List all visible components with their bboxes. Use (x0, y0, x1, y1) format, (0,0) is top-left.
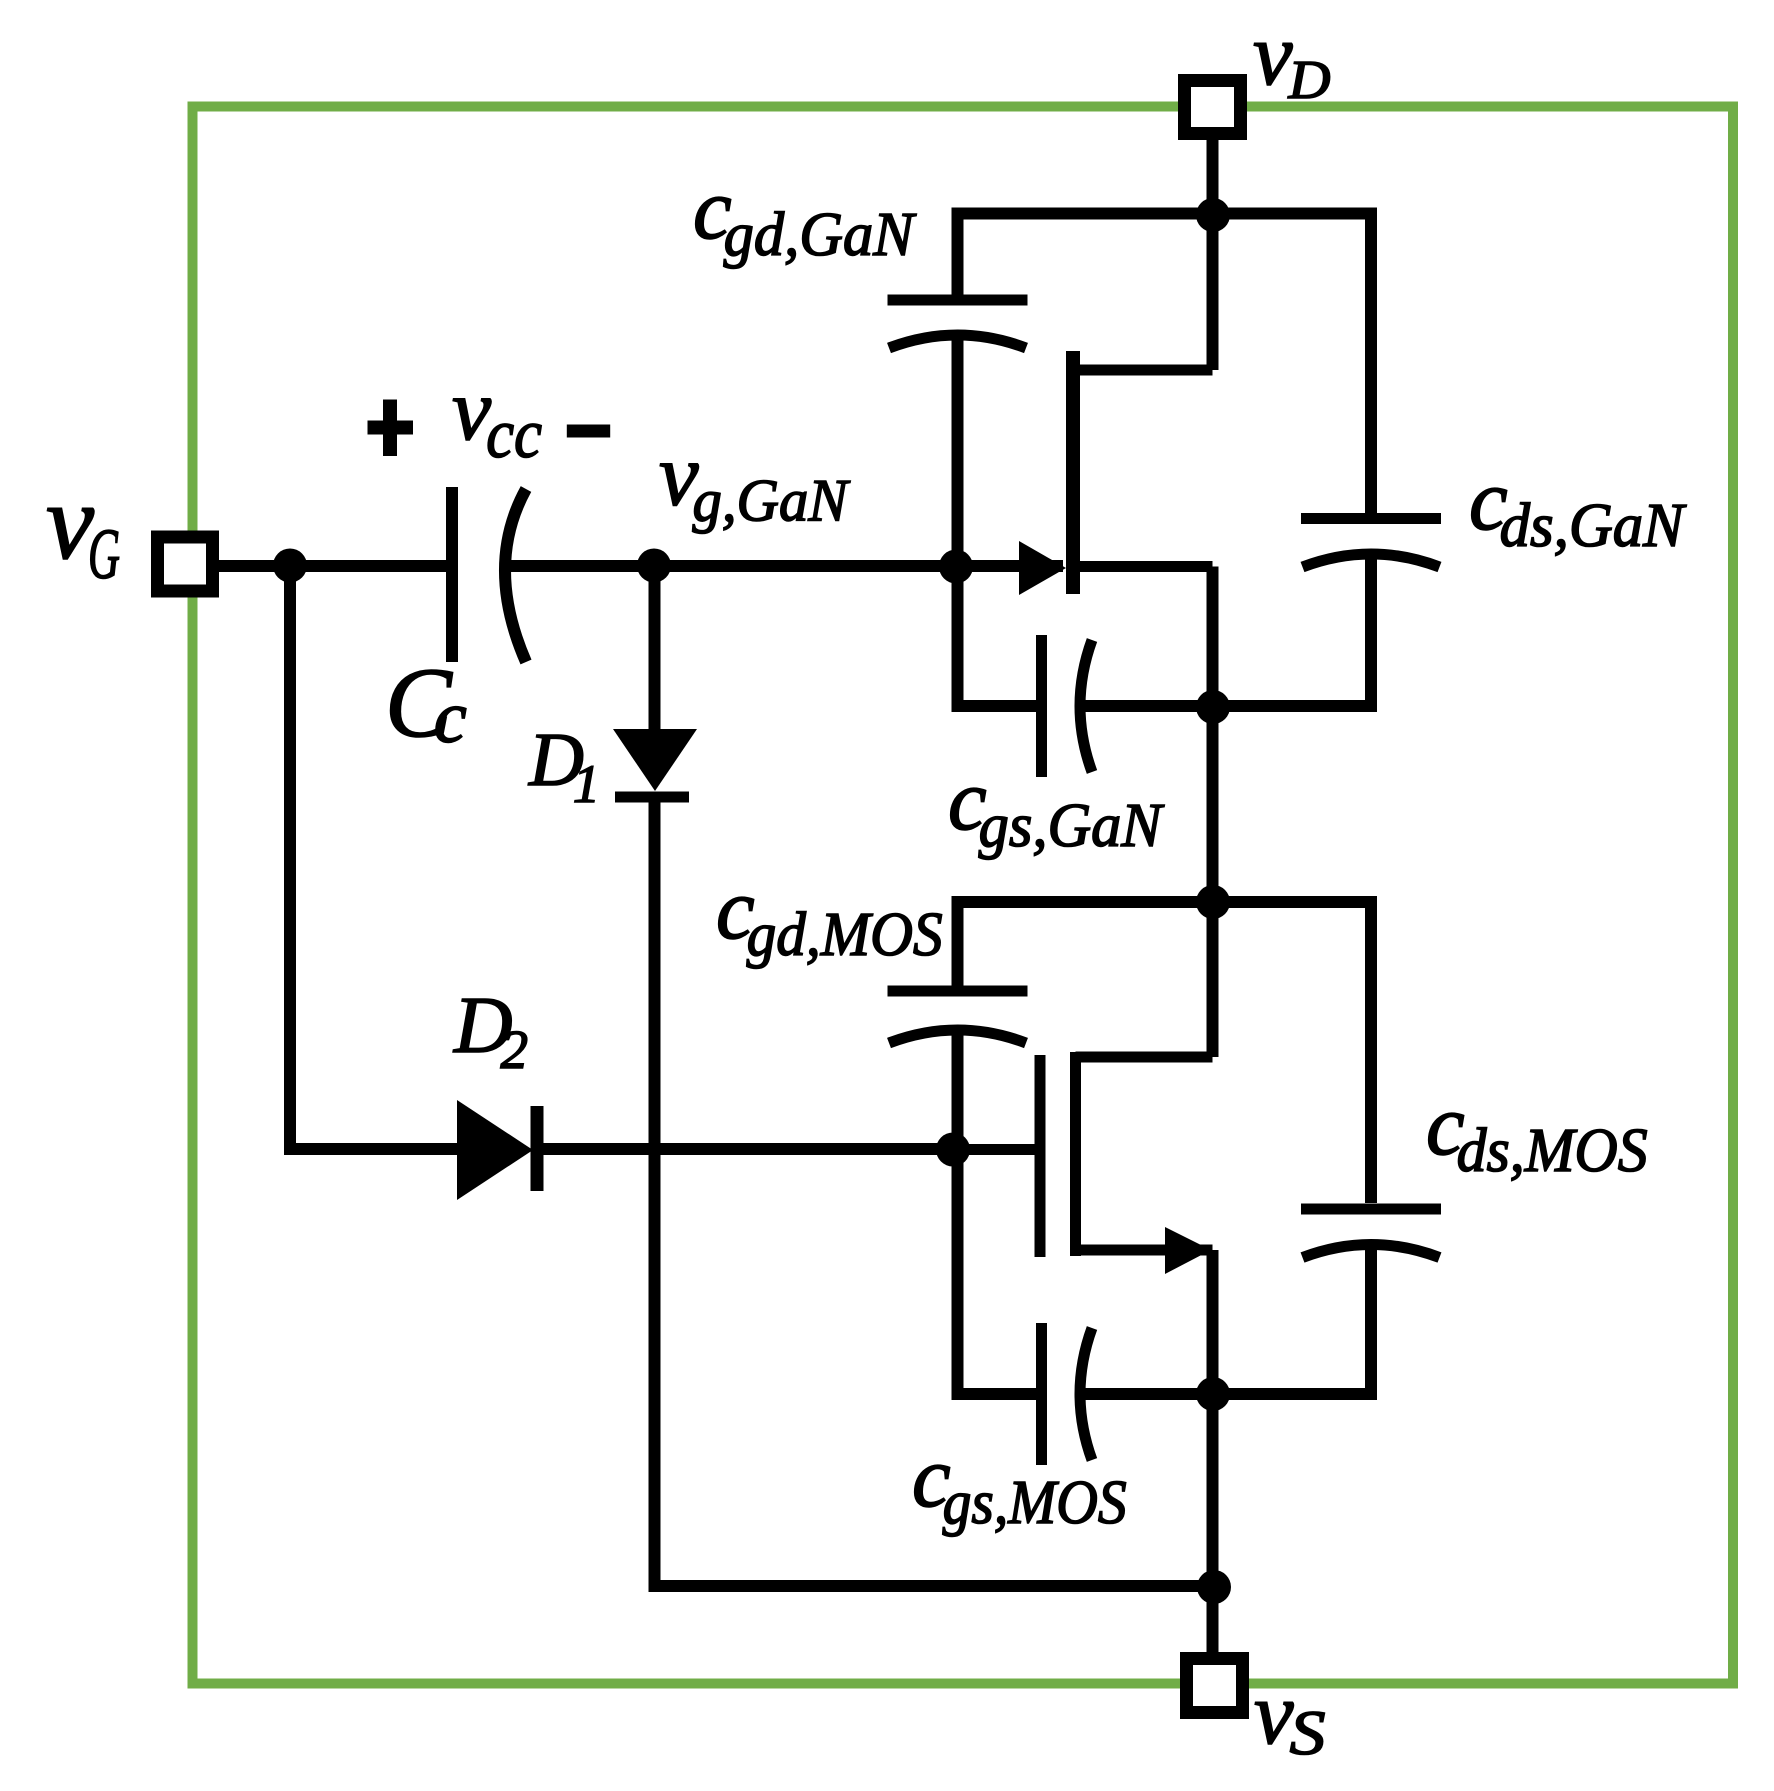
terminal square vD (1185, 81, 1241, 134)
capacitor cgs,GaN (1042, 635, 1093, 777)
GaN cell bottom rail right (1080, 700, 1377, 712)
wire MOS drain chain lower (1365, 1244, 1377, 1400)
transistor Q2 MOSFET (952, 1052, 1213, 1274)
MOS cell top rail (952, 896, 1378, 908)
GaN cell bottom rail left (952, 700, 1043, 712)
wire MOS gate chain lower (952, 1027, 964, 1400)
wire Cc to GaN gate (503, 560, 1063, 572)
capacitor cgs,MOS (1042, 1323, 1093, 1465)
node A junction (vG branch split) (273, 549, 307, 583)
node vS junction (1197, 1570, 1231, 1604)
MOS cell bottom rail left (952, 1388, 1043, 1400)
node MOS source junction (1196, 1377, 1230, 1411)
label + (368, 400, 414, 457)
MOS cell bottom rail right (1080, 1388, 1377, 1400)
GaN cell top rail (952, 208, 1378, 220)
transistor Q1 GaN HEMT (1019, 351, 1213, 595)
wire MOS source down to vS (1207, 1250, 1219, 1658)
wire gate chain lower (952, 336, 964, 712)
capacitor cds,MOS (1301, 1209, 1441, 1258)
terminal square vG (158, 537, 213, 591)
node GaN source junction (1196, 690, 1230, 724)
wire drain chain lower (1365, 554, 1377, 712)
node gate-chain junction (939, 550, 973, 584)
diode D2 (457, 1100, 952, 1200)
capacitor Cc (452, 487, 526, 662)
wire drain chain upper (1365, 208, 1377, 514)
wire MOS drain chain upper (1365, 896, 1377, 1203)
node vD junction (1196, 198, 1230, 232)
wire MOS gate chain upper (952, 902, 964, 986)
capacitor cds,GaN (1301, 519, 1441, 568)
wire vD down to GaN drain (1207, 140, 1219, 370)
wire gate chain upper (952, 214, 964, 297)
terminal square vS (1187, 1659, 1243, 1713)
node MOS drain junction (1196, 885, 1230, 919)
node MOS gate junction (936, 1133, 970, 1167)
diode D1 (613, 566, 697, 1592)
capacitor cgd,MOS (888, 991, 1028, 1043)
capacitor cgd,GaN (888, 300, 1028, 348)
wire bottom return (D1 cathode to vS) (655, 1580, 1215, 1592)
node vg,GaN junction (637, 549, 671, 583)
label minus (567, 425, 610, 438)
wire vG to Cc (219, 560, 452, 572)
wire GaN source down to MOS drain (1207, 567, 1219, 1058)
wire left branch down (290, 566, 457, 1149)
